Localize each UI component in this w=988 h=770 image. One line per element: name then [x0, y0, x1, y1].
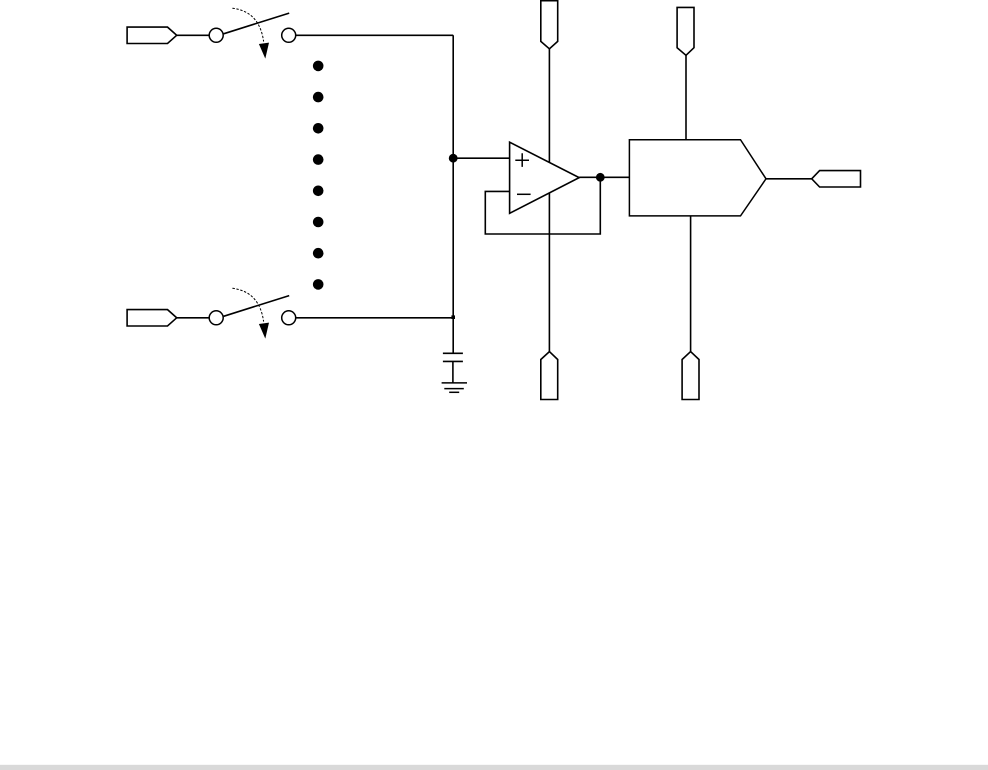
capacitor C bottom plate: [443, 360, 463, 362]
switch S1 arm: [224, 13, 290, 34]
junction dot op-amp output: [596, 173, 605, 182]
switch S2 arrow head: [259, 323, 269, 339]
channel ellipsis dot 3: [313, 123, 324, 134]
wire ADC block to output tag: [766, 178, 812, 180]
supply tag below ADC block: [682, 352, 699, 400]
supply tag above op-amp: [541, 1, 558, 49]
wire switch S2 to bus: [295, 317, 453, 319]
switch S1 actuation arc: [232, 8, 263, 41]
bus vertical wire: [452, 35, 454, 353]
switch S1 left contact: [209, 28, 223, 42]
wire ADC block bottom to supply tag: [690, 216, 692, 352]
wire supply tag to ADC block top: [685, 55, 687, 139]
channel ellipsis dot 8: [313, 279, 324, 290]
switch S2 actuation arc: [232, 288, 263, 321]
capacitor C top plate: [443, 352, 463, 354]
op-amp minus sign: [517, 193, 531, 195]
supply tag above ADC block: [677, 7, 694, 55]
junction square at bus and S2 wire: [451, 315, 455, 319]
channel ellipsis dot 7: [313, 248, 324, 259]
input tag IN top channel: [127, 27, 177, 43]
vertical supply net through op-amp (tag to tag): [548, 49, 550, 352]
op-amp plus sign: [515, 153, 529, 167]
junction dot bus to buffer: [449, 154, 458, 163]
channel ellipsis dot 5: [313, 186, 324, 197]
channel ellipsis dot 1: [313, 61, 324, 72]
output tag OUT: [812, 171, 861, 187]
switch S2 left contact: [209, 311, 223, 325]
wire op-amp output to ADC block: [579, 176, 629, 178]
supply tag below op-amp: [541, 352, 558, 400]
switch S1 right contact: [282, 28, 296, 42]
ADC block body: [629, 140, 766, 216]
input tag IN bottom channel: [127, 310, 177, 326]
wire bus to op-amp plus input: [453, 157, 509, 159]
ground bar 2: [444, 388, 464, 390]
switch S2 arm: [224, 296, 290, 317]
channel ellipsis dot 2: [313, 92, 324, 103]
wire switch S1 to bus: [295, 34, 453, 36]
ground bar 3: [449, 391, 459, 393]
op-amp U1 triangle: [510, 142, 580, 213]
wire capacitor to ground: [452, 361, 454, 383]
ground bar 1: [442, 382, 467, 384]
wire tag to switch S2 left contact: [177, 317, 209, 319]
wire tag to switch S1 left contact: [177, 34, 209, 36]
feedback wire from output to minus input: [485, 177, 600, 234]
switch S2 right contact: [282, 311, 296, 325]
channel ellipsis dot 4: [313, 154, 324, 165]
channel ellipsis dot 6: [313, 217, 324, 228]
switch S1 arrow head: [259, 43, 269, 59]
bottom scrollbar track: [0, 765, 988, 770]
